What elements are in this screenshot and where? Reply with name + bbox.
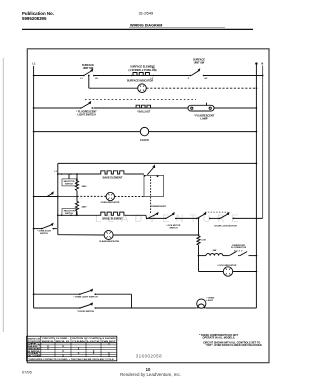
svg-text:* BALLAST: * BALLAST [137, 110, 151, 113]
svg-text:BAKE ELEMENT: BAKE ELEMENT [103, 176, 123, 179]
svg-text:SWITCH: SWITCH [65, 183, 73, 185]
svg-text:N: N [261, 61, 263, 65]
svg-text:UNIT SW: UNIT SW [83, 67, 94, 70]
svg-text:LIGHT: LIGHT [207, 300, 214, 302]
svg-text:OVEN INDICATOR: OVEN INDICATOR [101, 201, 120, 204]
svg-text:5995208395: 5995208395 [22, 16, 47, 21]
svg-text:DOOR LOCK MOTOR: DOOR LOCK MOTOR [214, 225, 236, 227]
svg-text:24K: 24K [212, 249, 216, 252]
svg-text:UNIT SW: UNIT SW [194, 61, 205, 64]
svg-text:240V: 240V [82, 205, 88, 208]
svg-text:* INDICATES CONTACTS CLOSED.: * INDICATES CONTACTS CLOSED. + THE FAN C… [28, 358, 115, 361]
svg-text:BROIL EL: BROIL EL [56, 341, 71, 343]
svg-text:* OVEN LIGHT SWITCH: * OVEN LIGHT SWITCH [73, 297, 97, 299]
svg-text:WIRING DIAGRAM: WIRING DIAGRAM [130, 23, 162, 27]
svg-text:31-2649: 31-2649 [139, 11, 154, 16]
svg-text:SWITCH: SWITCH [40, 233, 48, 235]
svg-text:240V: 240V [82, 185, 88, 188]
svg-text:SURFACE INDICATOR: SURFACE INDICATOR [127, 80, 153, 83]
svg-text:3.3K: 3.3K [201, 240, 206, 242]
svg-text:LOCK: LOCK [87, 341, 101, 343]
svg-text:CIRCUITS CLOSED - POSITION OF: CIRCUITS CLOSED - POSITION OF CONTROLS S… [42, 338, 116, 340]
svg-text:CLEAN INDICATOR: CLEAN INDICATOR [99, 240, 120, 243]
svg-text:LIGHT SWITCH: LIGHT SWITCH [77, 114, 95, 117]
svg-text:TIME BAKE: TIME BAKE [27, 347, 41, 350]
svg-text:"OFF", OVEN DOOR CLOSED AND UN: "OFF", OVEN DOOR CLOSED AND UNLOCKED. [206, 344, 263, 347]
svg-text:CLEAN: CLEAN [72, 340, 86, 343]
svg-text:BROIL ELEMENT: BROIL ELEMENT [102, 218, 123, 221]
svg-text:PS CONNECTOR: PS CONNECTOR [231, 247, 247, 249]
svg-text:SWITCH: SWITCH [170, 228, 178, 230]
svg-text:07/95: 07/95 [22, 370, 32, 375]
svg-text:BAKE EL: BAKE EL [42, 340, 55, 343]
svg-text:* DOOR SWITCH: * DOOR SWITCH [77, 311, 95, 313]
svg-text:SWITCH: SWITCH [65, 213, 73, 215]
svg-text:Rendered by LeadVenture, Inc.: Rendered by LeadVenture, Inc. [120, 372, 181, 377]
svg-text:THERMOSTAT: THERMOSTAT [151, 205, 167, 208]
svg-text:CLOCK: CLOCK [140, 139, 149, 142]
svg-text:* OVEN: * OVEN [207, 297, 215, 299]
svg-text:OPERATE IN ALL MODELS.: OPERATE IN ALL MODELS. [203, 337, 236, 340]
svg-text:LAMP: LAMP [200, 117, 207, 120]
svg-text:316002058: 316002058 [136, 353, 162, 358]
svg-text:LOCK INDICATOR: LOCK INDICATOR [218, 264, 237, 267]
svg-text:DEL CLEAN: DEL CLEAN [27, 355, 40, 358]
